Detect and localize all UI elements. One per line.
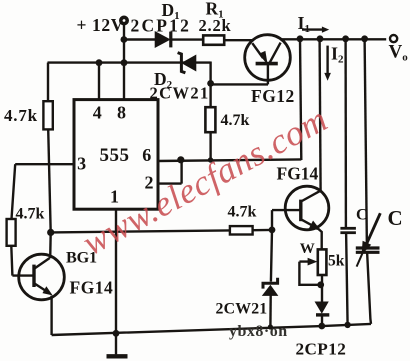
junction node BG1 collector [47,229,54,236]
wire zener drop [271,230,272,282]
wire 4.7k to pin6 line [209,132,211,160]
junction node rail V1 [297,35,304,42]
wire FG12 base [211,65,268,85]
wire second rail y62 [48,61,211,63]
junction node pin8 [121,59,128,66]
zener diode 2CW21 (bottom) [263,278,278,296]
junction node rail V2 [317,35,324,42]
svg-text:2CP12: 2CP12 [131,16,192,36]
svg-text:2.2k: 2.2k [199,16,232,35]
variable capacitor arrow [367,213,381,244]
terminal +12V [121,17,127,23]
resistor 4.7k (horizontal) [230,226,253,234]
svg-text:555: 555 [100,145,130,166]
svg-text:3: 3 [77,154,86,174]
bottom rail [52,324,371,335]
zener diode D2 [178,53,196,73]
svg-text:6: 6 [142,145,151,165]
resistor 4.7k (middle vertical) [205,107,215,132]
arrow I2 shaft [326,46,328,74]
svg-text:4.7k: 4.7k [221,112,250,129]
svg-text:C: C [388,206,403,230]
transistor BG1 base bar [32,265,35,287]
wire vertical V2 to FG14 collector [320,39,321,192]
wire FG14 emitter [318,229,321,250]
terminal Vo [390,35,397,42]
wire FG12 collector to output terminal [280,38,386,40]
arrow I1 shaft [302,28,323,30]
svg-text:4.7k: 4.7k [228,204,257,221]
svg-text:5k: 5k [328,252,345,269]
wire base feed line [51,230,272,233]
transistor FG12 emitter [252,43,263,58]
transistor BG1 circle [19,254,65,300]
wire D1 to R1 [172,38,204,40]
resistor R1 2.2k [203,35,224,44]
wire zener to bottom rail [269,295,272,327]
wire vertical V4 to variable capacitor [365,39,367,248]
svg-text:2CW21: 2CW21 [150,84,210,103]
transistor FG14 emitter [301,219,314,226]
svg-text:FG12: FG12 [251,86,295,106]
wire 4.7k R2 to BG1 collector node [48,129,51,232]
junction node D2/FG12 base [207,80,214,87]
svg-text:I1: I1 [298,13,311,35]
junction node rail V4 [361,35,368,42]
junction node rail V3 [342,35,349,42]
junction node at +12V/D1 [121,36,128,43]
svg-text:2CP12: 2CP12 [296,340,347,359]
wire BG1 emitter [50,296,52,335]
svg-text:1: 1 [110,186,119,206]
svg-text:FG14: FG14 [277,164,319,184]
IC 555 box [74,100,158,210]
wire top rail to D1 [124,38,156,40]
svg-text:W: W [300,241,315,257]
potentiometer wiper arrow [308,258,318,266]
svg-text:C: C [356,206,368,223]
wire vertical V1 node to pin6 line [300,39,301,160]
transistor FG14 circle [285,186,329,230]
wire FG14 base riser [272,210,301,230]
capacitor C plates [340,228,356,232]
svg-text:2CW21: 2CW21 [216,301,268,318]
junction node pin4 [96,59,103,66]
transistor FG12 collector [270,43,281,63]
svg-text:+ 12V: + 12V [77,15,125,35]
svg-text:4.7k: 4.7k [16,205,45,222]
svg-text:4.7k: 4.7k [4,106,38,125]
wire capacitor C to bottom rail [346,232,348,325]
variable capacitor C plates [356,248,380,252]
junction node ground [113,330,120,337]
svg-text:8: 8 [117,102,126,122]
junction node resistor to pin6 line [208,157,213,162]
transistor FG14 base bar [299,200,302,222]
transistor FG12 base bar [256,62,278,66]
junction node zener rail [268,324,273,329]
junction node pin6/pin2 [177,156,184,163]
transistor FG14 collector [301,191,320,202]
junction node C rail [344,322,350,328]
potentiometer 5k body [318,249,327,275]
junction node FG14 base [269,227,276,234]
svg-text:4: 4 [93,102,102,122]
wire rail to 4.7k R2 [47,63,49,102]
wire pin 1 to ground [115,209,117,333]
ground stub [115,333,117,354]
wire R1 to FG12 emitter [224,39,253,41]
wire vertical V3 to capacitor C [344,39,347,228]
arrow I2 head [324,73,331,81]
wire variable capacitor to bottom rail corner [367,252,371,324]
wire pin 6 line [158,159,302,161]
resistor 4.7k (left lower) [7,219,16,246]
wire 2CP12 to bottom rail [321,316,323,326]
arrow I1 head [322,27,329,33]
wire +12V feed [123,25,125,63]
transistor FG12 circle [245,35,291,81]
svg-text:FG14: FG14 [70,278,114,298]
svg-text:I2: I2 [331,44,344,66]
transistor BG1 collector [34,258,49,269]
transistor BG1 emitter [34,283,46,291]
svg-text:ybx8·on: ybx8·on [229,323,288,340]
resistor 4.7k (left upper) [43,101,52,129]
wire pin 3 to left branch [11,164,74,275]
wire D2 node down to 4.7k [209,62,211,108]
ground [107,354,128,358]
junction node 2CP12 rail [318,323,325,330]
wire pin 4 [98,63,100,100]
wire pot wiper loop [299,262,320,285]
wire pin 8 [123,63,125,100]
diode D1 [155,32,171,48]
wire pot to 2CP12 [321,275,323,303]
svg-text:Vo: Vo [389,42,409,64]
wire BG1 collector [49,232,52,258]
diode 2CP12 (bottom) [315,302,329,315]
wire pin 2 [158,160,182,184]
junction node wiper bottom [317,281,324,288]
